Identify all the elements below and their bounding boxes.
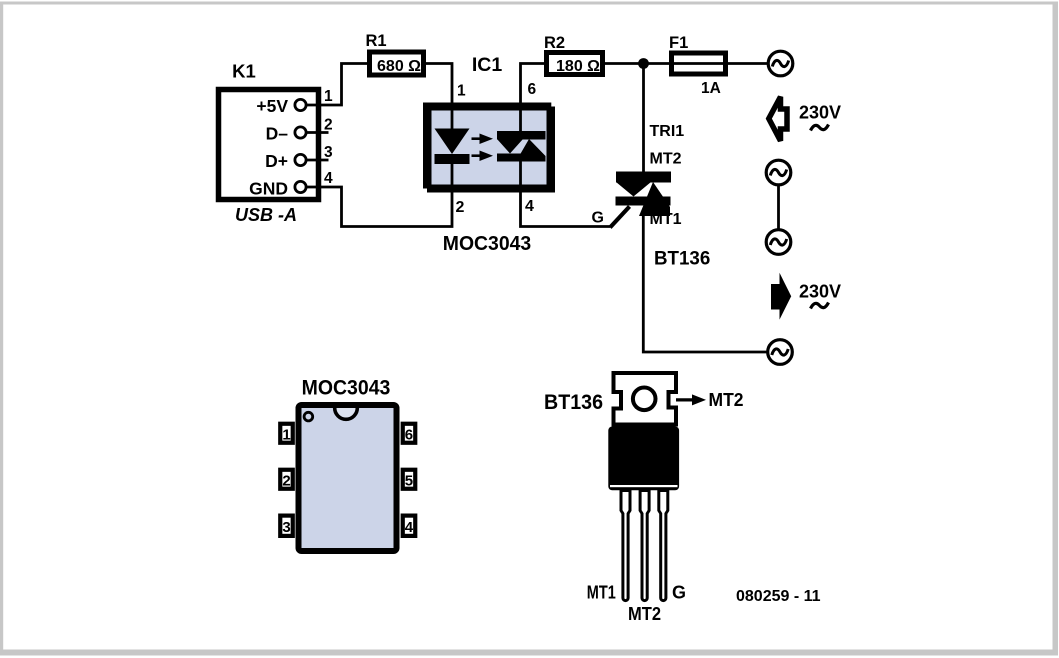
svg-text:K1: K1 xyxy=(232,61,256,82)
svg-text:1: 1 xyxy=(324,88,333,105)
svg-text:3: 3 xyxy=(282,519,290,536)
svg-text:F1: F1 xyxy=(669,34,688,52)
svg-text:GND: GND xyxy=(249,179,288,199)
svg-text:MT1: MT1 xyxy=(587,582,616,602)
svg-text:MT2: MT2 xyxy=(628,604,661,624)
svg-text:4: 4 xyxy=(405,519,414,536)
svg-text:IC1: IC1 xyxy=(472,54,503,76)
svg-text:5: 5 xyxy=(405,473,413,490)
svg-text:R2: R2 xyxy=(544,34,565,52)
svg-text:6: 6 xyxy=(405,427,413,444)
svg-text:D–: D– xyxy=(266,124,289,144)
svg-text:G: G xyxy=(592,210,604,227)
svg-text:G: G xyxy=(672,582,686,602)
svg-text:MT2: MT2 xyxy=(650,151,682,168)
svg-text:4: 4 xyxy=(324,170,333,187)
svg-text:080259 - 11: 080259 - 11 xyxy=(736,588,821,605)
svg-text:230V: 230V xyxy=(799,282,841,302)
svg-text:230V: 230V xyxy=(799,103,841,123)
svg-text:680 Ω: 680 Ω xyxy=(377,58,421,75)
svg-text:2: 2 xyxy=(456,199,465,216)
svg-text:3: 3 xyxy=(324,144,333,161)
svg-text:4: 4 xyxy=(525,198,534,215)
svg-text:MT1: MT1 xyxy=(650,211,682,228)
svg-text:TRI1: TRI1 xyxy=(650,123,685,140)
svg-text:BT136: BT136 xyxy=(544,391,603,414)
svg-text:1A: 1A xyxy=(701,80,721,97)
svg-text:2: 2 xyxy=(324,117,333,134)
svg-text:180 Ω: 180 Ω xyxy=(556,58,600,75)
svg-text:MT2: MT2 xyxy=(709,389,744,410)
svg-text:MOC3043: MOC3043 xyxy=(443,232,531,255)
svg-text:2: 2 xyxy=(282,473,290,490)
svg-text:BT136: BT136 xyxy=(654,248,710,270)
svg-text:6: 6 xyxy=(528,81,537,98)
svg-text:USB -A: USB -A xyxy=(235,205,297,225)
svg-text:1: 1 xyxy=(282,427,290,444)
svg-text:MOC3043: MOC3043 xyxy=(302,377,391,400)
svg-text:+5V: +5V xyxy=(256,96,288,116)
svg-text:R1: R1 xyxy=(366,32,387,50)
svg-text:1: 1 xyxy=(457,83,466,100)
svg-text:D+: D+ xyxy=(265,151,288,171)
